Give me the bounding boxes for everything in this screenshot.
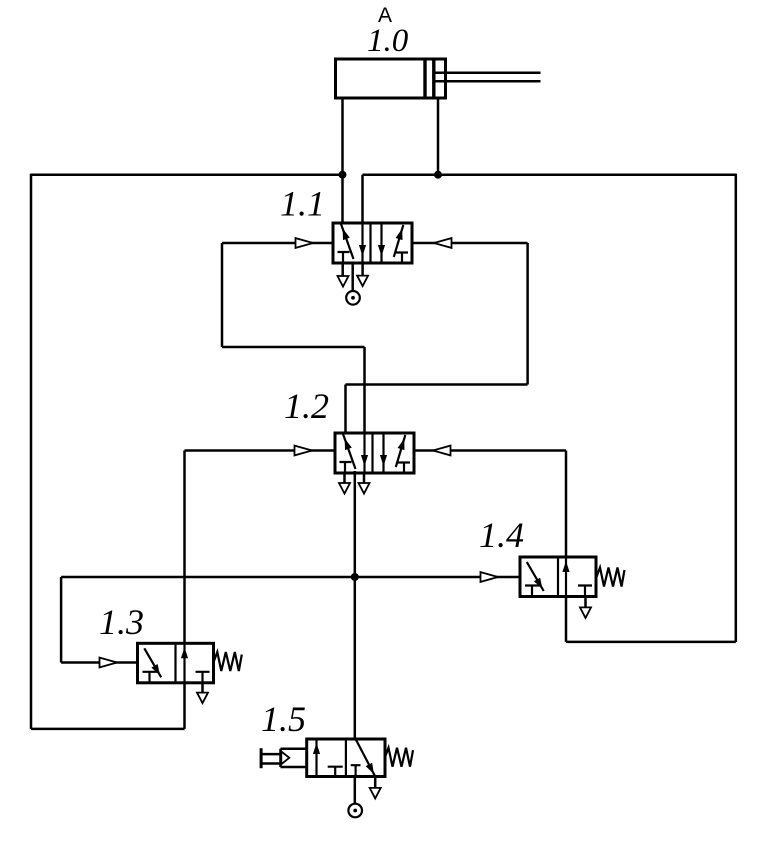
valve 1.5 spring bbox=[385, 748, 413, 767]
valve 1.5 supply stub bbox=[354, 777, 357, 804]
valve 1.4 exhaust triangle bbox=[580, 607, 591, 618]
wire supply vertical bbox=[354, 471, 357, 739]
wire valve 1.4 bottom port bbox=[565, 597, 568, 642]
valve 1.2 exhaust triangle left bbox=[339, 483, 350, 494]
svg-text:1.1: 1.1 bbox=[280, 184, 325, 224]
valve 1.1 supply stub bbox=[351, 263, 354, 291]
wire valve 1.1 top ports bbox=[361, 175, 364, 223]
valve U1.5 right diagonal bbox=[356, 739, 376, 777]
svg-text:1.2: 1.2 bbox=[284, 386, 329, 426]
pressure source under 1.5 bbox=[348, 804, 362, 818]
valve 1.3 spring bbox=[214, 652, 242, 671]
valve U1.1 passages bbox=[361, 223, 363, 263]
valve U1.5 blocked port T right bbox=[351, 765, 361, 776]
valve U1.4 body bbox=[520, 557, 596, 597]
arrow into valve 1.1 left bbox=[296, 238, 314, 248]
wire pilot distribution horizontal bbox=[61, 576, 520, 579]
valve U1.4 blocked port T left bbox=[525, 586, 540, 597]
arrow into valve 1.2 right bbox=[433, 446, 451, 456]
valve U1.1 right diagonal bbox=[394, 225, 404, 257]
wire left outer vertical bbox=[30, 174, 33, 729]
wire valve 1.2 right pilot bbox=[414, 451, 566, 558]
valve 1.2 exhaust triangle right bbox=[359, 483, 370, 494]
valve 1.1 exhaust triangle right bbox=[357, 276, 368, 287]
valve 1.5 manual button bbox=[260, 748, 263, 768]
valve 1.5 exhaust triangle bbox=[370, 788, 381, 799]
valve U1.4 blocked port T right bbox=[578, 586, 592, 597]
svg-text:1.5: 1.5 bbox=[261, 699, 306, 739]
valve U1.1 blocked port T right bbox=[396, 253, 408, 264]
cylinder 1.0 body bbox=[336, 59, 446, 98]
valve U1.1 body bbox=[333, 223, 412, 263]
valve U1.5 passage bbox=[315, 739, 317, 777]
valve 1.1 exhaust stubs bbox=[343, 263, 363, 276]
wire right outer vertical bbox=[735, 174, 738, 642]
valve 1.5 exhaust stub bbox=[374, 777, 377, 788]
valve 1.4 exhaust stub bbox=[584, 597, 587, 608]
valve U1.2 left diagonal bbox=[343, 434, 356, 469]
arrow into valve 1.1 right bbox=[434, 238, 452, 248]
valve U1.3 blocked port T right bbox=[196, 672, 210, 683]
wire valve 1.3 pilot bbox=[61, 577, 137, 663]
valve U1.5 blocked port T left bbox=[328, 767, 343, 777]
valve U1.3 body bbox=[138, 643, 214, 683]
wire top-right horizontal bbox=[363, 173, 736, 176]
valve U1.2 right diagonal bbox=[396, 435, 406, 467]
valve U1.3 blocked port T left bbox=[143, 672, 158, 683]
node junction left cylinder line bbox=[339, 171, 347, 179]
cylinder 1.0 piston rod bbox=[436, 73, 541, 82]
valve U1.2 blocked port T left bbox=[340, 462, 352, 473]
valve 1.3 exhaust stub bbox=[201, 683, 204, 693]
wire left cylinder port bbox=[341, 98, 344, 223]
valve U1.3 left diagonal bbox=[144, 648, 161, 677]
valve U1.2 body bbox=[335, 433, 414, 473]
valve U1.5 body bbox=[307, 739, 385, 777]
wire bottom-right horizontal bbox=[566, 641, 736, 644]
valve U1.4 left diagonal bbox=[527, 562, 544, 591]
node junction right cylinder line bbox=[434, 171, 442, 179]
valve 1.4 spring bbox=[597, 568, 625, 587]
wire valve 1.1 right pilot bbox=[346, 243, 528, 433]
arrow into valve 1.3 bbox=[100, 658, 118, 668]
arrow into valve 1.2 left bbox=[295, 446, 313, 456]
valve U1.1 left diagonal bbox=[341, 224, 354, 259]
svg-text:1.4: 1.4 bbox=[479, 515, 524, 555]
valve U1.3 passage bbox=[183, 643, 185, 683]
svg-text:1.3: 1.3 bbox=[99, 602, 144, 642]
wire valve 1.2 left pilot horizontal bbox=[185, 449, 336, 452]
valve 1.2 exhaust stubs bbox=[345, 473, 365, 483]
cylinder 1.0 piston bbox=[425, 60, 434, 97]
valve U1.2 passages bbox=[363, 433, 365, 473]
wire right cylinder port bbox=[437, 98, 440, 175]
valve U1.2 blocked port T right bbox=[398, 463, 410, 474]
pressure source under 1.1 bbox=[346, 291, 360, 305]
valve U1.1 blocked port T left bbox=[338, 252, 350, 263]
wire top-left horizontal bbox=[31, 173, 343, 176]
valve 1.3 exhaust triangle bbox=[197, 693, 208, 704]
wire bottom-left horizontal bbox=[31, 728, 185, 731]
wire valve 1.1 left pilot bbox=[222, 243, 365, 433]
node junction supply bbox=[351, 573, 359, 581]
wire riser to valve 1.2 left pilot bbox=[183, 451, 186, 729]
svg-text:1.0: 1.0 bbox=[367, 23, 409, 59]
valve U1.4 passage bbox=[565, 557, 567, 597]
valve 1.1 exhaust triangle left bbox=[338, 276, 349, 287]
arrow into valve 1.4 bbox=[481, 572, 499, 582]
